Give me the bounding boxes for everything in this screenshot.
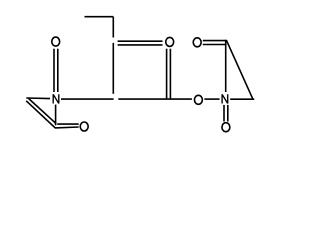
wire main chain segment B	[118, 98, 192, 100]
wire N=O left vertical double bond line 1	[53, 49, 55, 92]
wire C=O double bond left horizontal line 2	[118, 44, 163, 46]
wire N-C ring bond right	[230, 98, 254, 100]
wire N=O left vertical double bond line 2	[57, 49, 59, 92]
wire O=C double bond top right line 1	[203, 40, 227, 42]
wire vertical bond upper	[112, 17, 114, 38]
node O bottom right	[222, 123, 230, 132]
wire C=O bottom-left double bond line 2	[55, 126, 79, 129]
node O top middle	[166, 37, 174, 46]
node O top right	[193, 38, 201, 47]
wire N=O bottom right double bond line 2	[227, 105, 229, 122]
node O top left	[52, 37, 60, 46]
wire N-C vertical ring bond	[55, 105, 57, 126]
wire O-N ester bond	[204, 98, 219, 100]
wire C=O vertical double bond line 1	[166, 49, 168, 99]
node N left	[53, 94, 59, 103]
wire O=C double bond top right line 2	[203, 44, 227, 46]
wire N-C ring bond left	[26, 97, 50, 100]
wire vertical bond lower	[112, 43, 114, 94]
wire C=C diagonal double bond outer	[29, 99, 57, 124]
wire C-N vertical ring bond right	[225, 40, 227, 92]
node O ester	[194, 95, 202, 104]
wire main chain segment A	[61, 98, 114, 100]
wire methyl bond top	[85, 16, 114, 18]
node O bottom left	[80, 122, 88, 131]
wire C=O bottom-left double bond line 1	[57, 123, 78, 125]
wire N=O bottom right double bond line 1	[223, 105, 225, 122]
wire C-C diagonal ring bond right	[226, 40, 253, 99]
wire C=C diagonal double bond inner	[26, 101, 55, 128]
node N right	[222, 94, 228, 103]
wire C=O vertical double bond line 2	[169, 49, 171, 99]
wire C=O double bond left horizontal line 1	[118, 40, 163, 42]
